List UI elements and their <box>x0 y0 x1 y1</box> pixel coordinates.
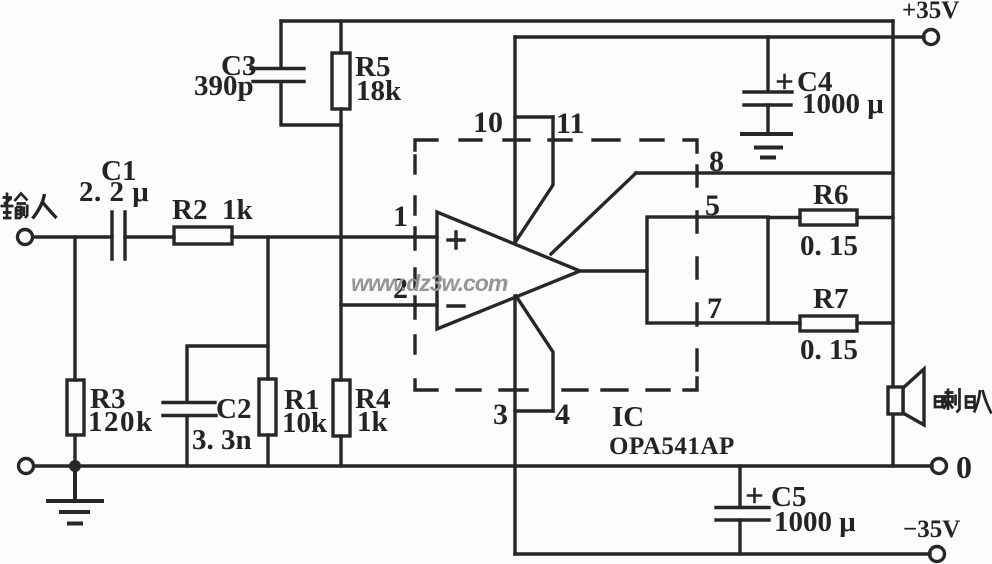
svg-text:www.dz3w.com: www.dz3w.com <box>351 270 508 296</box>
label input 输 <box>1 193 28 219</box>
svg-text:18k: 18k <box>356 75 402 107</box>
svg-text:0: 0 <box>956 449 972 485</box>
wire top feedback line C3/R5 to output rail <box>281 19 893 22</box>
wire C1 to R2 <box>125 235 174 238</box>
node junction dot input ground <box>69 460 81 472</box>
wire input to C1 <box>33 235 112 238</box>
capacitor C1 <box>112 212 125 259</box>
label input 入 <box>33 194 57 219</box>
wire pin 11 stub <box>516 117 553 241</box>
wire C3 top branch <box>279 21 282 68</box>
capacitor C4 plus <box>778 75 791 88</box>
wire pin5 to R6 <box>768 216 800 219</box>
op-amp minus sign <box>448 304 464 307</box>
capacitor C4 <box>744 92 792 105</box>
wire pin7 to R7 <box>768 321 800 324</box>
terminal 0 <box>932 459 947 474</box>
resistor R3 <box>67 380 84 435</box>
wire C5 to -35V rail <box>738 520 741 554</box>
svg-text:1k: 1k <box>357 406 389 438</box>
svg-text:5: 5 <box>705 189 720 222</box>
svg-text:1000 μ: 1000 μ <box>774 506 856 538</box>
label speaker 喇 <box>935 388 960 413</box>
wire pin 2 <box>341 303 437 306</box>
capacitor C3 <box>251 69 304 82</box>
svg-text:7: 7 <box>707 292 722 325</box>
resistor R4 <box>333 380 350 436</box>
svg-text:+35V: +35V <box>902 0 959 24</box>
IC dashed box top edge <box>415 140 697 152</box>
wire C2 top link <box>187 346 268 402</box>
wire V- supply line pin 3 <box>513 296 516 554</box>
resistor R6 <box>800 210 857 225</box>
resistor R7 <box>800 316 857 331</box>
wire R1 top <box>266 237 269 379</box>
svg-text:120k: 120k <box>88 406 154 438</box>
op-amp U1 triangle <box>437 212 580 329</box>
ground symbol C4 <box>742 134 791 158</box>
svg-text:10: 10 <box>473 106 503 139</box>
capacitor C5 <box>716 508 769 521</box>
svg-text:3: 3 <box>493 398 508 431</box>
svg-text:11: 11 <box>556 107 584 140</box>
IC dashed box right edge <box>684 166 697 390</box>
wire ground rail <box>34 464 932 467</box>
svg-text:8: 8 <box>709 145 724 178</box>
svg-text:C2: C2 <box>216 393 251 425</box>
wire R3 to ground rail <box>73 435 76 466</box>
wire output apex <box>580 269 647 272</box>
wire R4 top <box>339 305 342 380</box>
speaker body <box>888 387 903 414</box>
wire R2 to pin 1 <box>232 235 437 238</box>
svg-text:R7: R7 <box>813 283 848 315</box>
wire R1 to ground rail <box>266 435 269 466</box>
svg-text:0. 15: 0. 15 <box>800 230 858 262</box>
wire C2 to ground rail <box>185 416 188 466</box>
terminal input <box>18 230 33 245</box>
wire R7 to output rail <box>857 321 893 324</box>
ground symbol main <box>48 466 102 524</box>
wire -35V rail <box>515 552 930 555</box>
svg-text:−35V: −35V <box>903 516 960 543</box>
svg-text:1k: 1k <box>222 194 254 226</box>
svg-text:3. 3n: 3. 3n <box>192 424 252 456</box>
svg-text:390p: 390p <box>194 70 254 102</box>
svg-text:R2: R2 <box>172 194 207 226</box>
wire R4 to ground rail <box>339 436 342 466</box>
svg-text:IC: IC <box>612 401 644 433</box>
wire pin 8 slant <box>551 173 636 254</box>
IC dashed box left edge <box>413 156 416 353</box>
wire current-limit box <box>647 217 768 323</box>
wire C4 top <box>766 37 769 91</box>
wire pin 4 tick <box>515 409 553 412</box>
resistor R2 <box>174 227 232 244</box>
svg-text:0. 15: 0. 15 <box>800 334 858 366</box>
svg-text:R6: R6 <box>813 179 848 211</box>
op-amp plus sign <box>448 232 464 248</box>
wire R5 top to rail <box>339 21 342 53</box>
resistor R1 <box>259 379 276 435</box>
terminal ground left <box>19 459 34 474</box>
IC dashed box bottom edge <box>415 380 669 390</box>
wire pin 4 stub <box>516 296 553 411</box>
wire pin 11 tick <box>515 115 553 118</box>
svg-text:10k: 10k <box>282 407 328 439</box>
speaker horn <box>903 369 924 425</box>
wire V+ supply line pin 10 <box>513 37 516 243</box>
wire C4 to ground <box>766 105 769 134</box>
capacitor C2 <box>163 403 216 416</box>
wire pin 8 line <box>636 171 893 174</box>
wire C5 top <box>738 466 741 507</box>
resistor R5 <box>332 53 350 109</box>
capacitor C5 plus <box>748 489 761 502</box>
wire R5 bottom down through pin1 wire <box>339 109 342 305</box>
wire input branch down <box>73 237 76 380</box>
svg-text:OPA541AP: OPA541AP <box>609 433 735 460</box>
wire R6 to output rail <box>857 216 893 219</box>
terminal +35V <box>924 30 939 45</box>
svg-text:2. 2 μ: 2. 2 μ <box>79 176 149 208</box>
wire +35V rail <box>515 35 924 38</box>
wire output rail vertical <box>891 21 894 466</box>
terminal -35V <box>930 547 945 562</box>
label speaker 叭 <box>966 390 992 414</box>
svg-text:4: 4 <box>555 398 570 431</box>
svg-text:1000 μ: 1000 μ <box>802 88 884 120</box>
svg-text:1: 1 <box>393 200 408 233</box>
wire C3 bottom to R5 <box>281 82 341 125</box>
